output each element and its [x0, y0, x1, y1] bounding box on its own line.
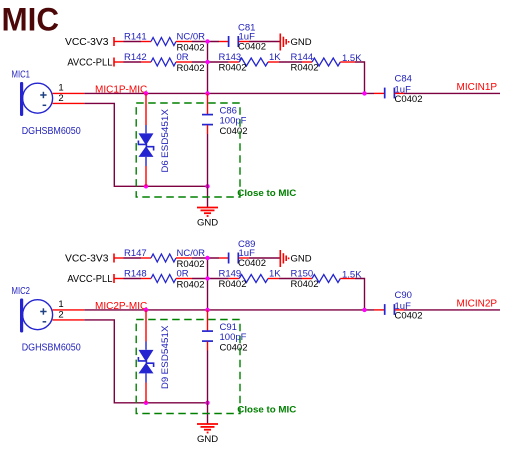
wire row2 R to junction	[192, 278, 229, 280]
svg-text:VCC-3V3: VCC-3V3	[65, 254, 109, 265]
minus mark	[43, 321, 47, 323]
svg-text:R142: R142	[124, 52, 147, 63]
svg-text:GND: GND	[197, 434, 218, 445]
wire mic pin1 to output cap	[84, 309, 374, 311]
capacitor C81 1uF C0402	[219, 41, 228, 43]
svg-text:MICIN2P: MICIN2P	[457, 299, 498, 310]
svg-text:R0402: R0402	[291, 279, 319, 290]
wire pin2 down and along bottom	[84, 103, 207, 186]
resistor R149 1K R0402	[229, 278, 240, 280]
wire cap to net	[404, 92, 500, 94]
svg-text:MIC: MIC	[2, 2, 60, 38]
svg-text:R147: R147	[124, 248, 147, 259]
wire row2 R to junction	[192, 61, 229, 63]
junction	[144, 91, 148, 95]
svg-text:Close to MIC: Close to MIC	[237, 404, 296, 415]
svg-text:C0402: C0402	[238, 42, 266, 53]
capacitor C91 100pF C0402	[207, 310, 209, 331]
svg-text:2: 2	[58, 93, 63, 104]
junction	[205, 308, 209, 312]
wire row2 port to R	[124, 278, 142, 280]
resistor R144 1.5K R0402	[302, 61, 312, 63]
svg-text:100pF: 100pF	[220, 116, 247, 127]
resistor R141 NC/0R R0402	[141, 41, 151, 43]
svg-text:GND: GND	[291, 37, 312, 48]
svg-text:D9: D9	[160, 377, 171, 389]
wire R to R	[279, 278, 302, 280]
svg-text:C0402: C0402	[395, 94, 423, 105]
svg-text:MIC1: MIC1	[12, 70, 31, 81]
ground GND (earth)	[207, 186, 209, 207]
resistor R143 1K R0402	[229, 61, 240, 63]
junction	[144, 401, 148, 405]
svg-text:AVCC-PLL: AVCC-PLL	[67, 274, 112, 285]
svg-text:R150: R150	[291, 269, 314, 280]
svg-text:AVCC-PLL: AVCC-PLL	[67, 58, 112, 69]
junction	[205, 256, 209, 260]
junction	[144, 184, 148, 188]
svg-text:ESD5451X: ESD5451X	[160, 108, 171, 158]
ground GND (earth)	[207, 403, 209, 424]
junction	[205, 401, 209, 405]
wire cap to bottom	[207, 351, 209, 403]
wire row2 port to R	[124, 61, 142, 63]
capacitor C89 1uF C0402	[219, 257, 228, 259]
wire 1.5K corner down to output wire	[355, 279, 365, 310]
close-to-MIC dashed box	[136, 103, 240, 197]
diode D6 ESD5451X (TVS)	[145, 93, 147, 125]
svg-text:C0402: C0402	[238, 258, 266, 269]
close-to-MIC dashed box	[136, 320, 240, 414]
svg-text:R141: R141	[124, 32, 147, 43]
svg-text:GND: GND	[291, 254, 312, 265]
svg-text:GND: GND	[197, 218, 218, 229]
svg-text:R149: R149	[219, 269, 242, 280]
wire cap to net	[404, 309, 500, 311]
wire 1.5K corner down to output wire	[355, 62, 365, 93]
svg-text:MIC2: MIC2	[12, 286, 31, 297]
junction	[362, 308, 366, 312]
power symbol GND (row1, sideways)	[279, 250, 281, 267]
power symbol GND (row1, sideways)	[279, 34, 281, 51]
wire row1 port to R	[124, 41, 142, 43]
wire row1 port to R	[124, 257, 142, 259]
svg-text:R143: R143	[219, 52, 242, 63]
svg-text:R0402: R0402	[219, 63, 247, 74]
svg-text:MICIN1P: MICIN1P	[457, 82, 498, 93]
svg-text:C0402: C0402	[220, 343, 248, 354]
pin 1	[53, 309, 85, 311]
svg-text:Close to MIC: Close to MIC	[237, 188, 296, 199]
svg-text:100pF: 100pF	[220, 332, 247, 343]
wire row1 R to C	[192, 257, 219, 259]
wire mic pin1 to output cap	[84, 92, 374, 94]
resistor R148 0R R0402	[141, 278, 151, 280]
svg-text:R144: R144	[291, 52, 314, 63]
junction	[205, 276, 209, 280]
svg-text:DGHSBM6050: DGHSBM6050	[22, 343, 81, 354]
junction	[205, 39, 209, 43]
junction	[362, 91, 366, 95]
junction	[144, 308, 148, 312]
junction	[205, 60, 209, 64]
plus mark	[40, 311, 46, 313]
wire R to R	[279, 61, 302, 63]
svg-text:C84: C84	[395, 73, 412, 84]
wire cap to bottom	[207, 134, 209, 186]
diode D9 ESD5451X (TVS)	[145, 310, 147, 342]
svg-text:0R: 0R	[177, 269, 189, 280]
svg-text:2: 2	[58, 309, 63, 320]
wire C to GND	[249, 41, 280, 43]
capacitor C84 1uF C0402 (output)	[374, 92, 384, 94]
svg-text:D6: D6	[160, 160, 171, 172]
wire vertical bias column	[207, 42, 209, 94]
svg-text:C0402: C0402	[220, 126, 248, 137]
svg-text:C0402: C0402	[395, 311, 423, 322]
wire row1 R to C	[192, 41, 219, 43]
svg-text:R148: R148	[124, 269, 147, 280]
capacitor C86 100pF C0402	[207, 93, 209, 114]
junction	[205, 184, 209, 188]
svg-text:ESD5451X: ESD5451X	[160, 325, 171, 375]
wire vertical bias column	[207, 258, 209, 310]
svg-text:DGHSBM6050: DGHSBM6050	[22, 126, 81, 137]
svg-text:R0402: R0402	[177, 280, 205, 291]
junction	[205, 91, 209, 95]
resistor R142 0R R0402	[141, 61, 151, 63]
wire pin2 down and along bottom	[84, 320, 207, 403]
svg-text:C90: C90	[395, 290, 412, 301]
wire C to GND	[249, 257, 280, 259]
pin 2	[53, 319, 85, 321]
pin 1	[53, 92, 85, 94]
capacitor C90 1uF C0402 (output)	[374, 309, 384, 311]
pin 2	[53, 102, 85, 104]
resistor R147 NC/0R R0402	[141, 257, 151, 259]
minus mark	[43, 104, 47, 106]
plus mark	[40, 94, 46, 96]
svg-text:R0402: R0402	[219, 279, 247, 290]
svg-text:VCC-3V3: VCC-3V3	[65, 37, 109, 48]
svg-text:R0402: R0402	[177, 63, 205, 74]
svg-text:0R: 0R	[177, 52, 189, 63]
resistor R150 1.5K R0402	[302, 278, 312, 280]
svg-text:R0402: R0402	[291, 63, 319, 74]
